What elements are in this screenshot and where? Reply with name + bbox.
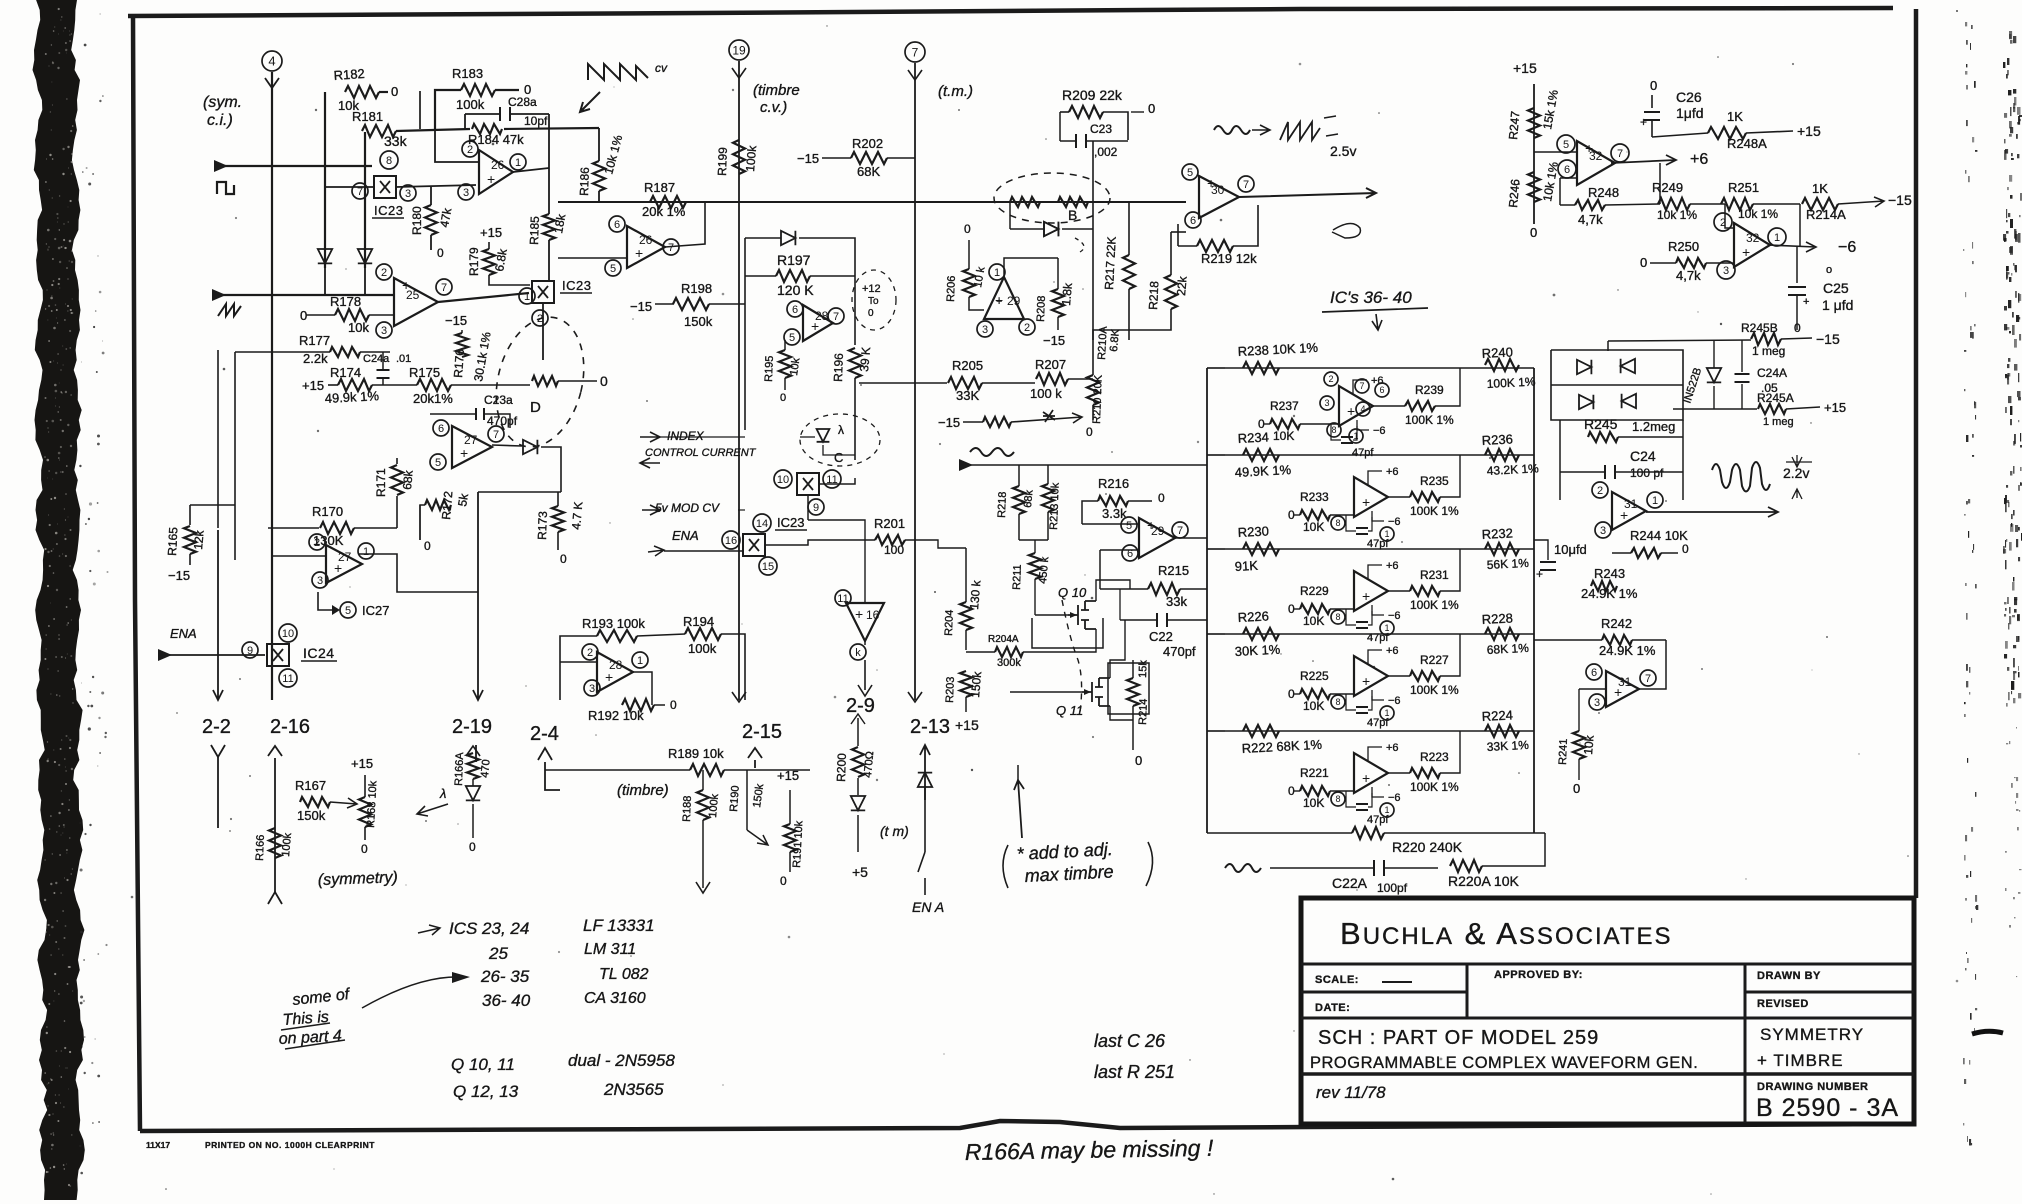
svg-text:11: 11 <box>837 593 848 605</box>
svg-text:+15: +15 <box>351 756 373 771</box>
svg-text:0: 0 <box>1086 425 1093 439</box>
wire op29 out <box>1173 537 1207 539</box>
svg-text:R241: R241 <box>1557 738 1570 765</box>
svg-text:IC's 36- 40: IC's 36- 40 <box>1330 288 1412 307</box>
svg-text:33K: 33K <box>956 388 979 403</box>
svg-text:R233: R233 <box>1300 490 1329 504</box>
svg-text:0: 0 <box>361 842 368 856</box>
svg-text:1: 1 <box>1384 708 1389 718</box>
svg-text:+: + <box>1620 507 1628 523</box>
resistor R232 <box>1485 543 1519 555</box>
svg-text:12k: 12k <box>191 529 207 550</box>
capacitor 47pf bank 3 <box>1356 622 1368 628</box>
wire op32a fb <box>1659 163 1661 204</box>
svg-text:68K 1%: 68K 1% <box>1486 641 1529 657</box>
svg-text:150k: 150k <box>968 670 984 698</box>
bank row 3 pins <box>1331 610 1345 624</box>
svg-text:R188: R188 <box>681 795 694 822</box>
svg-text:CA 3160: CA 3160 <box>584 990 646 1007</box>
wire bank row 4 input <box>1207 633 1225 635</box>
svg-text:11: 11 <box>282 673 293 685</box>
svg-text:C22: C22 <box>1149 629 1173 644</box>
wire 2-2 col <box>217 350 219 528</box>
svg-text:R247: R247 <box>1506 110 1522 140</box>
wire r245b drop <box>1607 341 1609 351</box>
svg-text:1: 1 <box>1652 495 1658 507</box>
resistor R240 <box>1485 359 1519 371</box>
svg-text:R178: R178 <box>330 294 361 309</box>
op-amp 29 <box>1139 518 1175 558</box>
wire col r196 box <box>744 238 746 430</box>
svg-text:10: 10 <box>777 474 789 486</box>
op-amp 25 <box>394 278 438 326</box>
svg-text:EN A: EN A <box>912 899 944 915</box>
svg-text:+12: +12 <box>862 283 881 295</box>
resistor R204 <box>960 602 972 630</box>
power -6 bank 4 <box>1372 690 1384 700</box>
svg-text:7: 7 <box>668 242 674 254</box>
svg-text:2-16: 2-16 <box>270 716 310 738</box>
svg-text:47pf: 47pf <box>1367 814 1389 826</box>
wire op29up out <box>1004 258 1038 277</box>
wire r218 r213 join <box>1019 539 1048 541</box>
svg-text:c.v.): c.v.) <box>760 99 787 116</box>
svg-text:R250: R250 <box>1668 239 1699 254</box>
svg-text:+6: +6 <box>1386 466 1399 478</box>
wire bank row 3 box <box>1207 548 1534 550</box>
svg-text:R173: R173 <box>535 511 550 540</box>
diode m3 <box>1579 395 1593 409</box>
svg-text:IC24: IC24 <box>303 645 335 661</box>
svg-text:R218: R218 <box>996 491 1009 518</box>
svg-text:ENA: ENA <box>170 626 197 641</box>
resistor R247 <box>1528 108 1540 138</box>
svg-text:3: 3 <box>317 575 323 587</box>
power -6 bank 5 <box>1372 787 1384 797</box>
resistor R238 <box>1243 362 1279 374</box>
svg-text:R187: R187 <box>644 180 675 195</box>
diode m4 <box>1622 394 1636 408</box>
power -6 bank 3 <box>1372 605 1384 615</box>
resistor R241 <box>1573 731 1585 759</box>
resistor R172 <box>425 500 451 510</box>
resistor R166A <box>467 753 479 779</box>
svg-text:0: 0 <box>424 539 431 553</box>
svg-text:1 meg: 1 meg <box>1763 416 1794 428</box>
capacitor C24a <box>377 370 390 378</box>
node 19 circle <box>729 40 749 60</box>
svg-text:R174: R174 <box>330 365 361 380</box>
svg-text:+: + <box>635 245 643 261</box>
bank row 5 pins <box>1331 792 1345 806</box>
title block frame <box>1301 898 1914 1124</box>
svg-text:R179: R179 <box>467 247 481 276</box>
sawtooth cv sketch <box>588 64 648 80</box>
right margin dash mark <box>1972 1031 2003 1034</box>
svg-text:25: 25 <box>488 944 508 963</box>
resistor R176r <box>532 376 558 386</box>
svg-text:C24A: C24A <box>1757 366 1787 380</box>
svg-text:R204A: R204A <box>988 634 1019 645</box>
svg-text:R224: R224 <box>1481 707 1513 724</box>
svg-text:R235: R235 <box>1420 474 1449 488</box>
svg-text:R207: R207 <box>1035 357 1066 372</box>
svg-text:R227: R227 <box>1420 653 1449 667</box>
far right scan streak <box>2013 466 2015 474</box>
op-amp bank 5 <box>1354 753 1388 793</box>
diode B2 <box>1044 222 1058 236</box>
resistor R211 <box>1029 553 1041 579</box>
svg-text:+: + <box>1362 588 1370 604</box>
power +6 bank 5 <box>1368 747 1382 761</box>
svg-text:+: + <box>1362 494 1370 510</box>
svg-text:−6: −6 <box>1388 516 1401 528</box>
svg-text:R204: R204 <box>943 609 956 636</box>
wire 2-15 <box>754 760 756 768</box>
svg-text:R210A: R210A <box>1096 325 1110 360</box>
svg-text:+6: +6 <box>1386 742 1399 754</box>
svg-text:150k: 150k <box>684 314 713 329</box>
svg-text:PROGRAMMABLE COMPLEX WAVEFOR: PROGRAMMABLE COMPLEX WAVEFORM GEN. <box>1310 1054 1698 1072</box>
svg-text:68k: 68k <box>400 469 416 490</box>
resistor R184 <box>472 124 502 134</box>
svg-text:(timbre: (timbre <box>753 82 800 99</box>
svg-text:−6: −6 <box>1388 610 1401 622</box>
op-amp bank 3 <box>1354 571 1388 611</box>
svg-text:1: 1 <box>637 655 643 667</box>
svg-text:R239: R239 <box>1415 383 1444 397</box>
svg-text:1: 1 <box>1384 623 1389 633</box>
svg-text:0: 0 <box>780 874 787 888</box>
svg-text:0: 0 <box>1148 101 1155 116</box>
svg-text:2-13: 2-13 <box>910 716 950 738</box>
svg-text:450 k: 450 k <box>1037 556 1051 584</box>
svg-text:68K: 68K <box>857 164 880 179</box>
svg-text:R231: R231 <box>1420 568 1449 582</box>
bank row1 pins <box>1324 372 1338 386</box>
svg-text:7: 7 <box>493 429 499 441</box>
wire r201 to r204 <box>919 540 966 548</box>
svg-text:0: 0 <box>964 222 971 236</box>
svg-text:DRAWING NUMBER: DRAWING NUMBER <box>1757 1081 1869 1093</box>
svg-text:+: + <box>605 669 613 685</box>
svg-text:REVISED: REVISED <box>1757 998 1809 1010</box>
svg-text:(t m): (t m) <box>880 823 909 839</box>
wire square input <box>215 165 372 167</box>
resistor R185 <box>543 214 555 240</box>
svg-text:470pf: 470pf <box>1163 644 1196 659</box>
wire b col down <box>1092 202 1094 340</box>
wire bank row 4 box <box>1207 633 1534 635</box>
svg-text:10: 10 <box>282 628 294 640</box>
svg-text:PRINTED ON NO. 1000H CLEARPRIN: PRINTED ON NO. 1000H CLEARPRINT <box>205 1140 375 1150</box>
svg-text:10K: 10K <box>1303 796 1324 810</box>
resistor R182 <box>345 86 379 98</box>
svg-text:+: + <box>1536 567 1543 581</box>
svg-text:5: 5 <box>1563 139 1569 151</box>
svg-text:R221: R221 <box>1300 766 1329 780</box>
svg-text:R180: R180 <box>410 206 424 235</box>
resistor R222 <box>1243 725 1279 737</box>
multiplier ic23 top <box>374 176 396 198</box>
svg-text:10k 1%: 10k 1% <box>1657 208 1697 222</box>
svg-text:+: + <box>334 560 342 576</box>
wire -6 out <box>1768 242 1816 252</box>
wire bank row 5 box <box>1207 730 1534 732</box>
svg-text:+6: +6 <box>1690 151 1708 168</box>
svg-text:R166A may be missing !: R166A may be missing ! <box>965 1135 1214 1165</box>
svg-text:R229: R229 <box>1300 584 1329 598</box>
wire col 7 <box>914 63 916 700</box>
svg-text:dual - 2N5958: dual - 2N5958 <box>568 1051 675 1070</box>
bank row 4 pins <box>1331 695 1345 709</box>
svg-text:9: 9 <box>247 645 253 657</box>
resistor R217 <box>1123 255 1135 289</box>
diode R166A <box>466 786 480 800</box>
svg-text:C26: C26 <box>1676 89 1702 105</box>
resistor R230 <box>1243 543 1279 555</box>
resistor R181 <box>362 125 396 137</box>
svg-text:1: 1 <box>524 291 530 303</box>
dashed circle C <box>800 414 880 466</box>
svg-text:3: 3 <box>1723 265 1729 277</box>
op-amp 32a <box>1577 141 1615 185</box>
svg-text:R225: R225 <box>1300 669 1329 683</box>
wire y492 <box>478 491 561 493</box>
svg-text:R246: R246 <box>1506 178 1522 208</box>
svg-text:100K 1%: 100K 1% <box>1410 598 1459 612</box>
op-amp bank right rail <box>1533 368 1535 833</box>
5v mod cv <box>642 505 660 515</box>
border right <box>1914 9 1919 898</box>
diode 2-9 <box>851 796 865 810</box>
svg-text:CONTROL CURRENT: CONTROL CURRENT <box>645 447 757 459</box>
svg-text:R240: R240 <box>1481 344 1513 361</box>
svg-text:0: 0 <box>780 392 786 404</box>
svg-text:R251: R251 <box>1728 180 1759 195</box>
capacitor C23 <box>1076 134 1086 148</box>
svg-text:49.9K 1%: 49.9K 1% <box>1234 462 1292 480</box>
svg-text:36- 40: 36- 40 <box>482 991 531 1010</box>
svg-text:100k: 100k <box>280 832 294 857</box>
op-amp bank 2 <box>1354 477 1388 517</box>
svg-text:Q 11: Q 11 <box>1056 703 1083 718</box>
svg-text:C28a: C28a <box>508 95 537 109</box>
svg-text:2.2k: 2.2k <box>303 351 328 366</box>
note arrow curve <box>362 977 462 1008</box>
svg-text:R214A: R214A <box>1806 207 1846 222</box>
svg-text:2.2v: 2.2v <box>1783 465 1809 481</box>
svg-text:16: 16 <box>725 535 737 547</box>
wire right block rails <box>1559 420 1561 500</box>
svg-text:+: + <box>1640 115 1647 129</box>
svg-text:R167: R167 <box>295 778 326 793</box>
svg-text:.01: .01 <box>396 353 411 365</box>
svg-text:7: 7 <box>441 282 447 294</box>
svg-text:C23a: C23a <box>484 393 513 407</box>
svg-text:7: 7 <box>1645 673 1651 685</box>
svg-text:0: 0 <box>469 840 476 854</box>
svg-text:33k: 33k <box>384 133 408 149</box>
svg-text:+15: +15 <box>1824 400 1846 415</box>
svg-text:R175: R175 <box>409 365 440 380</box>
wire op31a out <box>1646 507 1778 517</box>
svg-text:TL 082: TL 082 <box>599 966 649 983</box>
svg-text:0: 0 <box>1135 753 1142 768</box>
svg-text:68k: 68k <box>1022 489 1036 508</box>
svg-text:7: 7 <box>833 311 839 323</box>
svg-text:C22A: C22A <box>1332 875 1368 891</box>
svg-text:10pf: 10pf <box>524 114 548 128</box>
wire q10 q11 box <box>1096 580 1130 601</box>
svg-text:k: k <box>855 647 861 659</box>
diode matrix box <box>1551 350 1683 420</box>
svg-text:+15: +15 <box>1797 123 1821 139</box>
resistor R180 <box>425 205 437 235</box>
svg-text:6: 6 <box>438 423 444 435</box>
svg-text:(t.m.): (t.m.) <box>938 83 973 100</box>
svg-text:6: 6 <box>792 304 798 316</box>
capacitor C28a <box>500 107 510 121</box>
svg-text:8: 8 <box>1335 518 1340 528</box>
op-amp bank 4 <box>1354 656 1388 696</box>
svg-text:IC23: IC23 <box>562 278 591 293</box>
svg-text:Q 10, 11: Q 10, 11 <box>451 1055 515 1074</box>
svg-text:10K: 10K <box>1303 520 1324 534</box>
svg-text:R232: R232 <box>1481 525 1513 542</box>
svg-text:+15: +15 <box>955 717 979 733</box>
svg-text:5v MOD CV: 5v MOD CV <box>655 501 720 515</box>
svg-text:6: 6 <box>1564 164 1570 176</box>
op-amp 26a <box>479 150 513 194</box>
svg-text:3: 3 <box>463 187 469 199</box>
svg-text:5: 5 <box>610 263 616 275</box>
wire op27b out <box>359 554 478 592</box>
svg-text:R218: R218 <box>1146 280 1161 310</box>
svg-text:1: 1 <box>1384 805 1389 815</box>
op-amp 31b <box>1606 671 1639 707</box>
svg-text:33K 1%: 33K 1% <box>1486 738 1529 754</box>
svg-text:DATE:: DATE: <box>1315 1002 1350 1014</box>
svg-text:R220A 10K: R220A 10K <box>1448 873 1519 889</box>
svg-text:10K: 10K <box>1303 614 1324 628</box>
svg-text:4,7k: 4,7k <box>1578 212 1603 227</box>
svg-text:R226: R226 <box>1237 608 1269 625</box>
svg-text:Q 10: Q 10 <box>1058 585 1087 600</box>
resistor R203 <box>960 671 972 697</box>
svg-text:R199: R199 <box>715 147 730 176</box>
svg-text:56K 1%: 56K 1% <box>1486 556 1529 572</box>
svg-text:R228: R228 <box>1481 610 1513 627</box>
resistor R226 <box>1243 628 1279 640</box>
svg-text:100K 1%: 100K 1% <box>1410 504 1459 518</box>
svg-text:R172: R172 <box>439 490 455 520</box>
svg-text:0: 0 <box>437 246 444 260</box>
bank row 2 pins <box>1331 516 1345 530</box>
svg-text:o: o <box>1826 264 1832 276</box>
svg-text:10K: 10K <box>1303 699 1324 713</box>
svg-text:−15: −15 <box>797 151 819 166</box>
svg-text:3: 3 <box>1594 697 1600 709</box>
wire op31b out <box>1639 640 1666 689</box>
svg-text:6: 6 <box>1190 215 1196 227</box>
svg-text:470: 470 <box>479 759 493 778</box>
svg-text:R249: R249 <box>1652 180 1683 195</box>
svg-text:R208: R208 <box>1035 295 1048 322</box>
svg-text:R209 22k: R209 22k <box>1062 87 1123 103</box>
svg-text:2: 2 <box>587 647 593 659</box>
svg-text:SYMMETRY: SYMMETRY <box>1760 1025 1864 1044</box>
svg-text:+15: +15 <box>480 225 502 240</box>
svg-text:R201: R201 <box>874 516 905 531</box>
power -6 bank 2 <box>1372 511 1384 521</box>
svg-text:Q 12, 13: Q 12, 13 <box>453 1082 519 1101</box>
svg-text:1: 1 <box>1353 431 1358 441</box>
svg-text:R223: R223 <box>1420 750 1449 764</box>
svg-text:10μfd: 10μfd <box>1554 542 1587 557</box>
svg-text:10k: 10k <box>348 320 369 335</box>
svg-text:+: + <box>1614 684 1622 700</box>
resistor R218b <box>1165 275 1177 309</box>
svg-text:R214: R214 <box>1137 698 1150 725</box>
svg-text:30K 1%: 30K 1% <box>1234 642 1281 659</box>
resistor R168 <box>359 797 371 827</box>
svg-text:14: 14 <box>756 518 768 530</box>
svg-text:λ: λ <box>838 423 844 437</box>
svg-text:(timbre): (timbre) <box>617 782 669 799</box>
svg-text:ICS 23, 24: ICS 23, 24 <box>449 919 529 938</box>
node 7 circle <box>905 42 925 62</box>
svg-text:To: To <box>868 296 879 307</box>
svg-text:1.2meg: 1.2meg <box>1632 419 1675 434</box>
svg-text:1: 1 <box>1774 232 1780 244</box>
svg-text:2N3565: 2N3565 <box>603 1080 664 1099</box>
svg-text:1 μfd: 1 μfd <box>1822 297 1853 313</box>
capacitor C25 <box>1796 247 1798 283</box>
resistor R199 <box>733 140 745 174</box>
svg-text:+6: +6 <box>1386 645 1399 657</box>
svg-text:6.8K: 6.8K <box>1108 328 1122 352</box>
resistor R218c <box>1013 486 1025 514</box>
svg-text:49.9k 1%: 49.9k 1% <box>324 388 379 406</box>
svg-text:0: 0 <box>1573 781 1580 796</box>
svg-text:100k: 100k <box>456 97 485 112</box>
node 4 circle <box>262 51 282 71</box>
svg-text:(symmetry): (symmetry) <box>318 869 399 889</box>
wire 2-4 <box>545 762 560 790</box>
svg-text:,002: ,002 <box>1094 145 1118 159</box>
svg-text:2: 2 <box>1328 374 1333 384</box>
svg-text:C24a: C24a <box>363 353 390 365</box>
wire bank row 3 input <box>1207 548 1225 550</box>
resistor R173 <box>552 506 564 532</box>
svg-text:29: 29 <box>1007 294 1021 308</box>
svg-text:R244 10K: R244 10K <box>1630 528 1688 543</box>
svg-text:SCALE:: SCALE: <box>1315 974 1359 986</box>
svg-text:+: + <box>1742 244 1750 260</box>
svg-text:R196: R196 <box>831 353 846 382</box>
svg-text:R182: R182 <box>333 66 365 83</box>
svg-text:last C 26: last C 26 <box>1094 1031 1166 1051</box>
svg-text:R189 10k: R189 10k <box>668 746 724 761</box>
op-amp 26b <box>627 226 665 268</box>
waveform 2.2v sketch <box>1712 462 1770 492</box>
dashed gate line <box>1062 600 1082 712</box>
svg-text:−6: −6 <box>1838 239 1856 256</box>
svg-text:R219 12k: R219 12k <box>1201 251 1257 266</box>
svg-text:100pf: 100pf <box>1377 881 1408 895</box>
resistor R224 <box>1485 725 1519 737</box>
